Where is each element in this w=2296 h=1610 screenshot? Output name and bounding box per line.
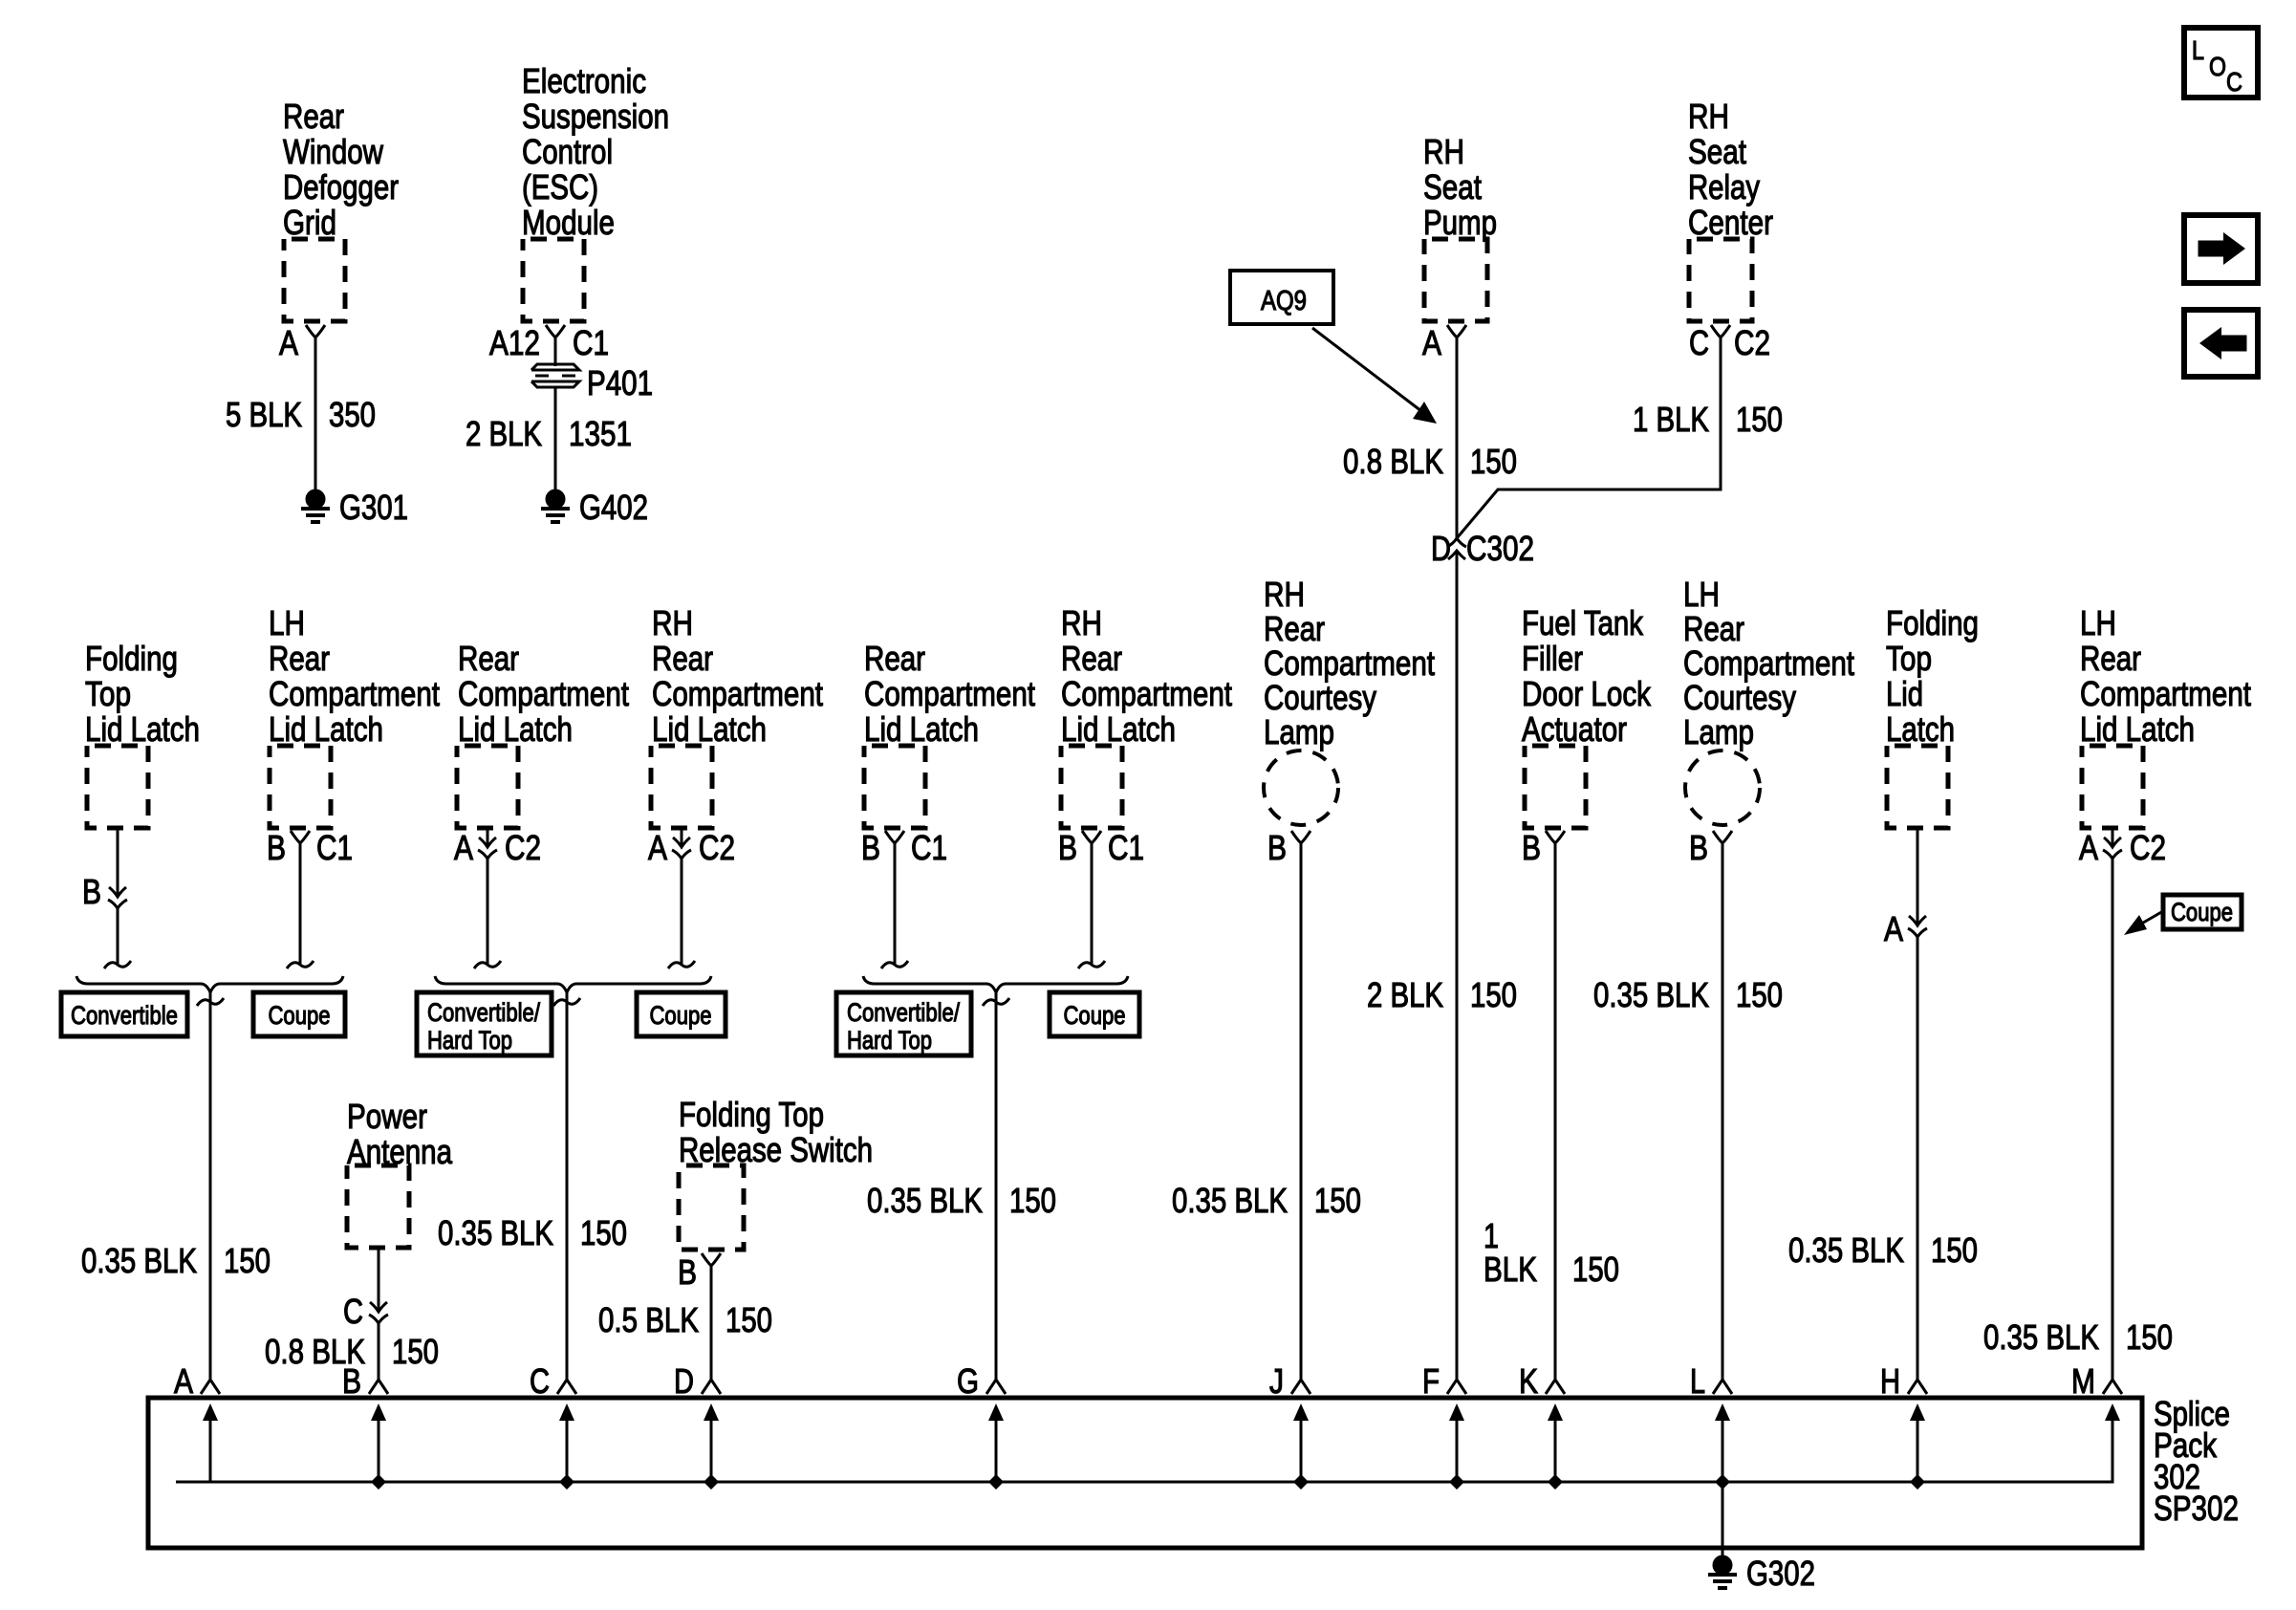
wire from power antenna to terminal B	[378, 1248, 380, 1381]
svg-text:0.5 BLK: 0.5 BLK	[598, 1300, 699, 1339]
svg-text:(ESC): (ESC)	[522, 167, 598, 207]
component: Folding Top Lid Latch (convertible) label	[85, 639, 200, 749]
svg-text:A: A	[648, 828, 667, 867]
RH rear compartment courtesy lamp (dashed circle)	[1264, 751, 1338, 825]
svg-text:B: B	[1267, 828, 1287, 867]
svg-text:Lamp: Lamp	[1683, 712, 1754, 751]
svg-text:2 BLK: 2 BLK	[466, 414, 542, 453]
brace grouping convertible-hardtop/coupe wires to terminal G	[863, 976, 1128, 992]
pin B of RH courtesy lamp	[1267, 828, 1310, 867]
svg-text:1 BLK: 1 BLK	[1633, 400, 1709, 439]
svg-text:150: 150	[224, 1241, 271, 1280]
right arrow box	[2184, 215, 2258, 283]
svg-text:C302: C302	[1466, 529, 1534, 568]
svg-text:Rear: Rear	[458, 639, 519, 678]
svg-text:0.8 BLK: 0.8 BLK	[1343, 442, 1443, 481]
svg-text:RH: RH	[652, 603, 693, 642]
svg-text:Lid Latch: Lid Latch	[864, 709, 979, 749]
svg-text:Module: Module	[522, 203, 615, 242]
svg-text:A: A	[1422, 323, 1441, 362]
wire 2 BLK 1351	[554, 386, 557, 490]
svg-text:G301: G301	[339, 488, 408, 527]
svg-text:Lid Latch: Lid Latch	[458, 709, 573, 749]
svg-text:Seat: Seat	[1423, 167, 1482, 207]
component: Folding Top Release Switch label	[679, 1095, 873, 1169]
component: Rear Compartment Lid Latch (2) label	[864, 639, 1035, 749]
svg-text:F: F	[1422, 1361, 1440, 1401]
svg-text:Lamp: Lamp	[1264, 712, 1334, 751]
svg-text:Compartment: Compartment	[652, 674, 823, 713]
splice terminal K	[1519, 1361, 1565, 1490]
svg-text:L: L	[2192, 35, 2204, 65]
svg-text:D: D	[674, 1361, 694, 1401]
svg-text:350: 350	[329, 395, 376, 434]
splice terminal F	[1422, 1361, 1466, 1490]
wire label 0.35 BLK 150 (L)	[1593, 975, 1783, 1014]
svg-text:C2: C2	[505, 828, 541, 867]
pin A of defogger	[279, 323, 325, 362]
svg-text:B: B	[861, 828, 880, 867]
svg-text:Lid Latch: Lid Latch	[1061, 709, 1176, 749]
svg-text:Folding Top: Folding Top	[679, 1095, 824, 1134]
ground G302	[1708, 1554, 1815, 1593]
ground G402	[541, 488, 648, 527]
component: Electronic Suspension Control (ESC) Module label	[522, 61, 669, 242]
component: Rear Compartment Lid Latch (convertible/hard top) label	[458, 639, 629, 749]
wire label 2 BLK 150	[1367, 975, 1517, 1014]
svg-text:Rear: Rear	[269, 639, 330, 678]
rear window defogger grid box	[284, 239, 345, 321]
pins A / C2 with connector	[648, 828, 735, 867]
tilde on wire G	[983, 998, 1009, 1006]
component: RH Rear Compartment Lid Latch (2) label	[1061, 603, 1232, 749]
AQ9 arrow to wire	[1312, 328, 1437, 424]
pin C inline connector	[343, 1292, 388, 1331]
svg-text:RH: RH	[1423, 132, 1464, 171]
svg-text:Suspension: Suspension	[522, 97, 669, 136]
svg-text:150: 150	[726, 1300, 772, 1339]
pins A / C2 with connector	[2079, 828, 2166, 867]
svg-text:Rear: Rear	[652, 639, 713, 678]
svg-text:Lid Latch: Lid Latch	[652, 709, 767, 749]
svg-text:A: A	[2079, 828, 2098, 867]
component: RH Rear Compartment Courtesy Lamp label	[1264, 575, 1435, 751]
svg-text:Power: Power	[347, 1097, 427, 1136]
fuel tank filler door lock actuator box	[1525, 746, 1586, 828]
svg-text:A12: A12	[489, 323, 540, 362]
wire from rear compartment lid latch	[487, 828, 489, 966]
svg-text:G402: G402	[579, 488, 648, 527]
svg-text:Rear: Rear	[1061, 639, 1122, 678]
callout box Coupe with arrow	[2124, 895, 2242, 935]
grommet P401	[531, 363, 653, 402]
connector D C302	[1431, 529, 1534, 568]
svg-text:Folding: Folding	[1886, 603, 1979, 642]
component: LH Rear Compartment Lid Latch label	[269, 603, 440, 749]
svg-text:Coupe: Coupe	[2171, 898, 2233, 926]
svg-text:Fuel Tank: Fuel Tank	[1522, 603, 1644, 642]
svg-text:J: J	[1269, 1361, 1284, 1401]
pins A / C2 with connector	[454, 828, 541, 867]
svg-text:Door Lock: Door Lock	[1522, 674, 1652, 713]
wire from bus to ground G302	[1722, 1482, 1724, 1556]
RH rear compartment lid latch box (2)	[1061, 746, 1122, 828]
svg-text:Release Switch: Release Switch	[679, 1130, 873, 1169]
rear compartment lid latch box (2)	[864, 746, 925, 828]
svg-text:M: M	[2071, 1361, 2095, 1401]
svg-text:A: A	[454, 828, 473, 867]
svg-text:B: B	[82, 872, 101, 911]
label box Coupe (3)	[1050, 992, 1139, 1036]
label box Convertible/Hard Top	[417, 992, 552, 1055]
wire label 1 BLK 150 (K)	[1484, 1216, 1619, 1289]
label box Coupe	[253, 992, 345, 1036]
svg-text:150: 150	[1314, 1181, 1361, 1220]
svg-text:Filler: Filler	[1522, 639, 1583, 678]
svg-text:C2: C2	[699, 828, 735, 867]
component: RH Seat Pump label	[1423, 132, 1497, 242]
pin A inline connector	[1884, 909, 1927, 948]
tilde on wire A	[197, 998, 224, 1006]
splice terminal G	[957, 1361, 1006, 1490]
svg-text:C1: C1	[1108, 828, 1144, 867]
svg-text:Rear: Rear	[283, 97, 344, 136]
splice terminal M	[2071, 1361, 2122, 1401]
component: Power Antenna label	[347, 1097, 453, 1171]
component: RH Rear Compartment Lid Latch label	[652, 603, 823, 749]
svg-text:B: B	[1522, 828, 1541, 867]
wire end tilde	[1078, 961, 1105, 968]
svg-text:C1: C1	[911, 828, 947, 867]
wire label 5 BLK 350	[226, 395, 376, 434]
svg-text:Rear: Rear	[1264, 609, 1325, 648]
LH rear compartment lid latch box (coupe)	[2082, 746, 2143, 828]
splice terminal H	[1880, 1361, 1927, 1490]
pins B / C1	[1058, 828, 1144, 867]
wire from LH rear compartment lid latch	[299, 843, 302, 966]
pin B of LH courtesy lamp	[1689, 828, 1732, 867]
svg-text:LH: LH	[1683, 575, 1720, 614]
svg-text:Convertible/: Convertible/	[427, 998, 540, 1027]
svg-text:O: O	[2209, 52, 2226, 81]
svg-text:A: A	[1884, 909, 1903, 948]
svg-text:B: B	[267, 828, 286, 867]
wire ESC to P401	[554, 337, 557, 366]
svg-text:Lid Latch: Lid Latch	[2080, 709, 2195, 749]
brace grouping convertible/coupe wires to terminal A	[76, 976, 343, 992]
svg-text:0.35 BLK: 0.35 BLK	[438, 1213, 553, 1252]
pins B / C1	[267, 828, 353, 867]
svg-text:150: 150	[1736, 400, 1783, 439]
LH rear compartment courtesy lamp (dashed circle)	[1685, 751, 1760, 825]
wire label 0.8 BLK 150 (B)	[265, 1332, 439, 1371]
svg-text:Relay: Relay	[1688, 167, 1760, 207]
splice terminal L	[1690, 1361, 1732, 1490]
wire 5 BLK 350	[314, 337, 317, 490]
svg-text:H: H	[1880, 1361, 1900, 1401]
svg-text:D: D	[1431, 529, 1451, 568]
svg-text:Latch: Latch	[1886, 709, 1955, 749]
svg-text:2 BLK: 2 BLK	[1367, 975, 1443, 1014]
svg-text:B: B	[678, 1252, 697, 1292]
svg-text:150: 150	[1470, 975, 1517, 1014]
svg-text:Center: Center	[1688, 203, 1773, 242]
svg-text:G: G	[957, 1361, 979, 1401]
svg-text:Window: Window	[283, 132, 384, 171]
svg-text:B: B	[1058, 828, 1077, 867]
pin B of actuator	[1522, 828, 1565, 867]
svg-text:Compartment: Compartment	[458, 674, 629, 713]
svg-text:Seat: Seat	[1688, 132, 1746, 171]
left arrow box	[2184, 310, 2258, 377]
svg-text:AQ9: AQ9	[1261, 286, 1307, 316]
pin B of release switch	[678, 1252, 721, 1292]
svg-text:Lid: Lid	[1886, 674, 1923, 713]
svg-text:Hard Top: Hard Top	[427, 1026, 512, 1055]
pin B inline connector	[82, 872, 127, 911]
wire 1 BLK 150 to terminal K	[1554, 843, 1557, 1381]
wire label 0.35 BLK 150 (H)	[1788, 1230, 1978, 1270]
svg-text:Pump: Pump	[1423, 203, 1497, 242]
wire label 0.35 BLK 150 (C)	[438, 1213, 627, 1252]
svg-text:150: 150	[1470, 442, 1517, 481]
component: LH Rear Compartment Lid Latch (coupe) label	[2080, 603, 2251, 749]
svg-text:Lid Latch: Lid Latch	[269, 709, 383, 749]
component: Folding Top Lid Latch (2) label	[1886, 603, 1979, 749]
wire from rear compartment lid latch (2)	[894, 843, 897, 966]
svg-text:Hard Top: Hard Top	[847, 1026, 932, 1055]
svg-text:P401: P401	[587, 363, 653, 402]
folding top lid latch box	[87, 746, 148, 828]
svg-text:0.35 BLK: 0.35 BLK	[81, 1241, 197, 1280]
svg-text:G302: G302	[1746, 1554, 1815, 1593]
svg-text:Compartment: Compartment	[1264, 643, 1435, 683]
svg-text:LH: LH	[2080, 603, 2116, 642]
wire 0.35 BLK 150 to terminal L	[1722, 843, 1724, 1381]
svg-text:C: C	[1689, 323, 1709, 362]
svg-text:Actuator: Actuator	[1522, 709, 1627, 749]
svg-text:150: 150	[1931, 1230, 1978, 1270]
pins A12 / C1 of ESC module	[489, 323, 609, 362]
RH rear compartment lid latch box	[651, 746, 712, 828]
svg-text:150: 150	[1572, 1250, 1619, 1289]
LH rear compartment lid latch box	[270, 746, 331, 828]
svg-text:Compartment: Compartment	[1061, 674, 1232, 713]
splice terminal B	[342, 1361, 388, 1490]
svg-text:1351: 1351	[569, 414, 632, 453]
svg-text:Convertible: Convertible	[71, 1001, 178, 1030]
svg-text:C: C	[530, 1361, 550, 1401]
wire end tilde	[104, 961, 131, 968]
wire label 0.35 BLK 150 (J)	[1172, 1181, 1361, 1220]
svg-text:0.35 BLK: 0.35 BLK	[1172, 1181, 1288, 1220]
svg-text:K: K	[1519, 1361, 1538, 1401]
svg-text:Coupe: Coupe	[1064, 1001, 1126, 1030]
RH seat pump box	[1424, 239, 1487, 321]
wire from RH rear compartment lid latch	[681, 828, 683, 966]
tilde on wire C	[553, 998, 580, 1006]
svg-text:150: 150	[392, 1332, 439, 1371]
svg-text:Defogger: Defogger	[283, 167, 399, 207]
wire 0.8 BLK 150 from pump to C302	[1456, 337, 1459, 538]
svg-text:A: A	[279, 323, 298, 362]
svg-text:150: 150	[1736, 975, 1783, 1014]
svg-text:C1: C1	[573, 323, 609, 362]
wire from brace to terminal G	[995, 992, 998, 1381]
svg-text:Compartment: Compartment	[1683, 643, 1854, 683]
svg-text:Lid Latch: Lid Latch	[85, 709, 200, 749]
wire from folding top lid latch (2) to terminal H	[1917, 828, 1919, 1381]
svg-text:150: 150	[1009, 1181, 1056, 1220]
svg-text:SP302: SP302	[2154, 1489, 2239, 1528]
splice pack name label	[2154, 1394, 2239, 1528]
svg-text:RH: RH	[1688, 97, 1729, 136]
wire end tilde	[881, 961, 908, 968]
wire from RH rear compartment lid latch (2)	[1091, 843, 1094, 966]
svg-text:5 BLK: 5 BLK	[226, 395, 302, 434]
splice terminal J	[1269, 1361, 1310, 1490]
svg-text:Rear: Rear	[1683, 609, 1744, 648]
svg-text:Folding: Folding	[85, 639, 178, 678]
wire from release switch to terminal D	[710, 1266, 713, 1381]
svg-text:Courtesy: Courtesy	[1264, 678, 1376, 717]
svg-text:150: 150	[580, 1213, 627, 1252]
pins B / C1	[861, 828, 947, 867]
svg-text:Coupe: Coupe	[650, 1001, 712, 1030]
svg-text:RH: RH	[1061, 603, 1102, 642]
svg-text:Top: Top	[85, 674, 131, 713]
svg-text:Coupe: Coupe	[269, 1001, 331, 1030]
rear compartment lid latch box	[457, 746, 518, 828]
wire from brace to terminal C	[566, 992, 569, 1381]
svg-text:RH: RH	[1264, 575, 1305, 614]
folding top lid latch box (2)	[1887, 746, 1948, 828]
svg-text:C: C	[343, 1292, 363, 1331]
splice terminal C	[530, 1361, 576, 1490]
svg-text:B: B	[342, 1361, 361, 1401]
RH seat relay center box	[1689, 239, 1752, 321]
wire 0.35 BLK 150 to terminal M	[2112, 828, 2114, 1381]
wire end tilde	[287, 961, 314, 968]
ground G301	[301, 488, 408, 527]
splice pack SP302 outer box	[148, 1398, 2142, 1548]
svg-text:Rear: Rear	[2080, 639, 2141, 678]
label box Coupe (2)	[637, 992, 726, 1036]
ESC module box	[523, 239, 584, 321]
svg-text:Control: Control	[522, 132, 613, 171]
pin A of RH seat pump	[1422, 323, 1466, 362]
splice terminal D	[674, 1361, 721, 1490]
wire 1 BLK 150 from relay center to C302	[1457, 337, 1721, 538]
svg-text:Convertible/: Convertible/	[847, 998, 960, 1027]
component: RH Seat Relay Center label	[1688, 97, 1773, 242]
svg-text:L: L	[1690, 1361, 1705, 1401]
svg-text:B: B	[1689, 828, 1708, 867]
component: LH Rear Compartment Courtesy Lamp label	[1683, 575, 1854, 751]
wire from brace to terminal A	[209, 992, 212, 1381]
svg-text:Grid: Grid	[283, 203, 336, 242]
svg-text:150: 150	[2126, 1317, 2173, 1357]
callout box AQ9	[1230, 271, 1333, 324]
wire label 1 BLK 150	[1633, 400, 1783, 439]
svg-text:Courtesy: Courtesy	[1683, 678, 1796, 717]
svg-text:C: C	[2226, 67, 2242, 97]
brace grouping convertible-hardtop/coupe wires to terminal C	[435, 976, 711, 992]
label box Convertible/Hard Top (2)	[836, 992, 971, 1055]
power antenna box	[347, 1165, 409, 1248]
svg-text:C1: C1	[316, 828, 353, 867]
svg-text:A: A	[174, 1361, 193, 1401]
svg-text:Top: Top	[1886, 639, 1932, 678]
wire label 0.5 BLK 150 (D)	[598, 1300, 772, 1339]
folding top release switch box	[679, 1165, 744, 1250]
wire label 0.35 BLK 150 (M)	[1983, 1317, 2173, 1357]
component: Rear Window Defogger Grid label	[283, 97, 399, 242]
wire label 0.8 BLK 150	[1343, 442, 1517, 481]
wire 0.35 BLK 150 to terminal J	[1300, 843, 1303, 1381]
svg-text:0.35 BLK: 0.35 BLK	[1983, 1317, 2099, 1357]
wire label 0.35 BLK 150 (G)	[867, 1181, 1056, 1220]
svg-text:0.35 BLK: 0.35 BLK	[1593, 975, 1709, 1014]
svg-text:Rear: Rear	[864, 639, 925, 678]
wire from folding top lid latch	[117, 828, 119, 966]
splice terminal A	[174, 1361, 220, 1482]
svg-text:C2: C2	[1734, 323, 1770, 362]
svg-text:BLK: BLK	[1484, 1250, 1537, 1289]
splice pack bus wire	[176, 1403, 2120, 1482]
svg-text:C2: C2	[2130, 828, 2166, 867]
wire end tilde	[474, 961, 501, 968]
svg-text:Compartment: Compartment	[269, 674, 440, 713]
wire label 2 BLK 1351	[466, 414, 632, 453]
wire 2 BLK 150 from C302 to splice terminal F	[1456, 551, 1459, 1381]
wire label 0.35 BLK 150 (A)	[81, 1241, 271, 1280]
svg-text:Compartment: Compartment	[2080, 674, 2251, 713]
svg-text:0.35 BLK: 0.35 BLK	[867, 1181, 983, 1220]
svg-text:Compartment: Compartment	[864, 674, 1035, 713]
wire end tilde	[668, 961, 695, 968]
component: Fuel Tank Filler Door Lock Actuator label	[1522, 603, 1652, 749]
svg-text:0.35 BLK: 0.35 BLK	[1788, 1230, 1904, 1270]
pins C / C2 of relay center	[1689, 323, 1770, 362]
LOC legend box	[2184, 28, 2258, 98]
svg-text:LH: LH	[269, 603, 305, 642]
label box Convertible	[61, 992, 187, 1036]
svg-text:Electronic: Electronic	[522, 61, 646, 100]
